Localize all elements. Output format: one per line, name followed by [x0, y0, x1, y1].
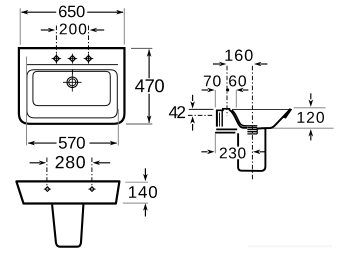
dimension 650 — [20, 6, 124, 45]
plan view deck back line — [27, 64, 118, 66]
plan view outer rim — [19, 48, 125, 124]
faucet hole left (plan) — [52, 54, 62, 64]
faucet hole left (front) — [44, 187, 51, 192]
dimension 160 — [213, 50, 268, 67]
side view back tab right edge — [221, 111, 223, 127]
faucet hole centre (plan) — [68, 54, 78, 64]
dimension 280 — [30, 156, 111, 169]
front view pedestal — [52, 205, 83, 247]
faucet hole right (front) — [88, 187, 95, 192]
side view rim top and faucet bump — [216, 109, 229, 111]
extension line bowl back (side) — [235, 90, 237, 108]
side view trap cover — [238, 129, 265, 171]
side view bowl bottom front — [257, 110, 290, 129]
dimension 470 — [126, 48, 164, 124]
side view bracket upper line — [216, 128, 237, 130]
side view bowl back slope outer — [229, 110, 247, 128]
dimension 570 — [27, 57, 119, 149]
dimension 140 — [123, 168, 157, 216]
dimension 42 — [169, 95, 214, 131]
side view bowl back slope inner — [232, 110, 257, 126]
centreline left faucet (plan) — [55, 26, 57, 64]
centreline faucet (side) — [226, 66, 228, 116]
dimension 200 — [41, 24, 104, 35]
front view basin body — [16, 181, 119, 203]
plan view bowl bottom — [33, 71, 110, 105]
side view drain flange — [247, 128, 257, 134]
dimension 230 — [201, 150, 265, 155]
plan view bowl opening — [27, 70, 117, 118]
dimension 70 and 60 — [202, 75, 249, 92]
label 230 background — [219, 147, 247, 160]
side view bracket lower line — [215, 132, 235, 134]
dimension 120 — [269, 93, 334, 140]
side view back tab — [216, 110, 218, 127]
centreline drain (side) — [251, 66, 253, 179]
centreline right faucet (plan) — [88, 26, 90, 64]
drain crosshair (plan) — [63, 73, 82, 92]
side view front rim tip — [283, 108, 293, 118]
faint watermark bottom right — [248, 245, 332, 247]
faucet hole right (plan) — [84, 54, 94, 64]
extension line wall (side) — [214, 90, 216, 108]
side view back tab inner slot — [219, 113, 221, 127]
side view rim back edge (thin) — [232, 108, 291, 110]
centreline drain stub (plan) — [71, 69, 73, 74]
centreline left hole (front) — [46, 158, 48, 187]
label 230 — [220, 148, 246, 159]
centreline right hole (front) — [91, 158, 93, 187]
